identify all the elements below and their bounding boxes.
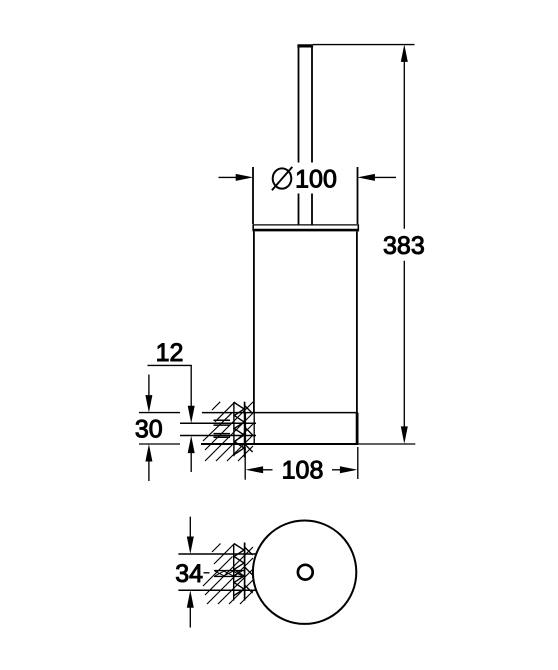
extension lines diameter 100 bbox=[253, 167, 358, 224]
bottom view outer circle bbox=[253, 521, 356, 624]
dimension arrows diameter 100 bbox=[219, 174, 397, 181]
label 108 bbox=[282, 457, 324, 485]
extension line handle top to 383 dim bbox=[313, 44, 415, 46]
extension line base bottom to 383 dim bbox=[358, 443, 415, 445]
extension lines 12 dim bbox=[180, 423, 256, 435]
anchor zigzag bottom view bbox=[234, 544, 244, 596]
dimension 12 bracket and arrows bbox=[148, 365, 195, 472]
wall hatching front view bbox=[203, 402, 253, 461]
svg-text:108: 108 bbox=[282, 457, 324, 485]
anchor ticks front view bbox=[245, 406, 253, 453]
svg-text:12: 12 bbox=[156, 339, 184, 367]
label 12 bbox=[156, 339, 184, 367]
wall lines front view bbox=[234, 402, 245, 458]
brush handle bbox=[297, 46, 313, 226]
dimension 30 arrows bbox=[145, 375, 152, 482]
svg-text:383: 383 bbox=[383, 232, 425, 260]
extension lines 108 dim bbox=[245, 447, 358, 480]
dimension 383 line and arrows bbox=[401, 44, 408, 444]
extension lines 34 dim bbox=[178, 554, 256, 590]
anchor ticks bottom view bbox=[245, 547, 253, 593]
wall hatching bottom view bbox=[203, 544, 253, 605]
bottom view center circle bbox=[298, 565, 313, 580]
extension lines 30 dim bbox=[139, 413, 180, 444]
wall lines bottom view bbox=[234, 543, 245, 601]
label 383 bbox=[383, 232, 425, 260]
hatch dashes front view bbox=[214, 420, 231, 437]
svg-text:100: 100 bbox=[295, 166, 337, 194]
anchor zigzag front view bbox=[234, 403, 244, 455]
svg-text:30: 30 bbox=[135, 416, 163, 444]
label 30 bbox=[135, 416, 163, 444]
container lid bbox=[253, 224, 359, 231]
label diameter 100 bbox=[272, 166, 337, 194]
label 34 bbox=[175, 560, 203, 588]
svg-text:34: 34 bbox=[175, 560, 203, 588]
screw symbol bottom view bbox=[204, 571, 245, 577]
base plate bbox=[201, 413, 358, 445]
dimension 108 arrows bbox=[246, 466, 358, 473]
dimension 34 arrows bbox=[187, 517, 194, 628]
container body bbox=[254, 231, 357, 413]
